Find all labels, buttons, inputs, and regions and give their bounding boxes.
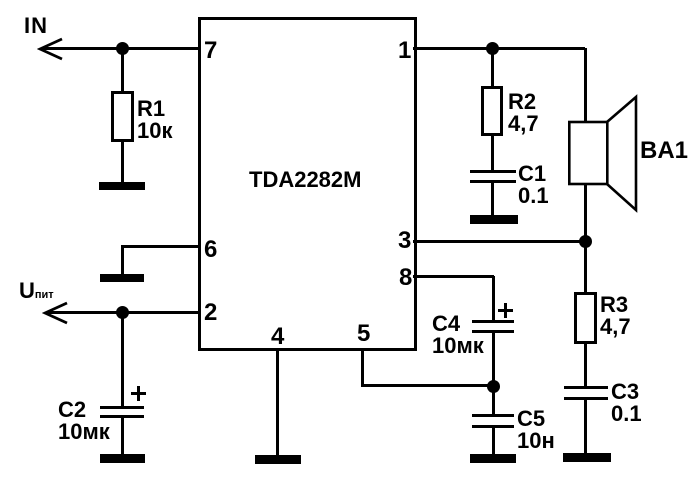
label C1 0.1 — [518, 163, 549, 207]
wire speaker top — [584, 48, 587, 122]
wire R3 bottom — [584, 343, 587, 388]
node junction Upit/C2 — [116, 306, 129, 319]
label C2 10mk — [58, 399, 110, 443]
wire C5 bottom — [492, 428, 495, 456]
wire IN to pin7 — [42, 47, 201, 50]
resistor R3 — [574, 292, 597, 344]
label TDA2282M — [249, 169, 361, 191]
wire R2 top — [491, 48, 494, 87]
pin 5 — [357, 322, 370, 346]
arrowhead Upit — [42, 301, 70, 325]
pin 1 — [398, 39, 411, 63]
wire R1 bottom — [121, 141, 124, 183]
pin 7 — [204, 39, 217, 63]
wire pin3 — [413, 240, 585, 243]
resistor R1 — [111, 91, 134, 142]
label R3 4,7 — [600, 294, 631, 338]
label R1 10k — [137, 98, 172, 142]
wire C4 bottom — [492, 333, 495, 386]
node junction pin1/R2 — [486, 42, 499, 55]
wire C2 top — [121, 312, 124, 406]
wire speaker bottom — [584, 184, 587, 242]
wire C2 bottom — [121, 418, 124, 455]
node junction C4/C5/pin5 — [487, 380, 500, 393]
capacitor C4 — [472, 320, 514, 323]
wire pin8 right — [413, 275, 494, 278]
label C4 10mk — [432, 313, 484, 357]
pin 4 — [271, 325, 284, 349]
label C3 0.1 — [611, 381, 642, 425]
wire R3 top — [584, 241, 587, 293]
wire pin1 to speaker — [413, 47, 585, 50]
wire R2 bottom — [491, 135, 494, 172]
capacitor C2 — [100, 406, 144, 409]
capacitor C3 — [564, 386, 608, 389]
wire pin5 down — [361, 348, 364, 386]
resistor R2 — [481, 86, 503, 136]
wire pin8 down to C4 — [492, 276, 495, 322]
pin 2 — [204, 301, 217, 325]
wire pin6 down — [121, 245, 124, 275]
node junction IN/R1 — [116, 42, 129, 55]
wire pin2 Upit — [47, 311, 201, 314]
ground pin6 — [100, 274, 144, 282]
wire pin6 — [121, 245, 201, 248]
pin 3 — [398, 229, 411, 253]
capacitor C5 — [472, 414, 514, 417]
ground C5 — [470, 454, 516, 463]
label R2 4,7 — [508, 91, 539, 135]
pin 6 — [204, 238, 217, 262]
wire R1 top — [121, 48, 124, 92]
speaker BA1 — [566, 94, 640, 214]
ground R1 — [99, 182, 145, 190]
capacitor C2 plus sign — [131, 392, 146, 395]
wire C1 bottom — [491, 183, 494, 216]
ground C1 — [470, 215, 518, 224]
arrowhead IN — [37, 37, 65, 61]
wire pin5 right — [361, 384, 494, 387]
node junction speaker/R3 — [579, 235, 592, 248]
label BA1 — [640, 139, 688, 163]
ground C2 — [100, 454, 145, 463]
ground C3 — [563, 453, 611, 462]
capacitor C4 plus sign — [498, 309, 513, 312]
IC U1 TDA2282M — [198, 17, 417, 351]
pin 8 — [399, 266, 412, 290]
label C5 10n — [517, 408, 555, 452]
ground pin4 — [255, 455, 301, 464]
label Upit — [19, 280, 54, 302]
capacitor C1 — [470, 170, 516, 173]
wire C3 bottom — [584, 400, 587, 454]
label IN — [24, 15, 48, 37]
wire pin4 — [276, 348, 279, 456]
wire C5 top — [492, 386, 495, 415]
